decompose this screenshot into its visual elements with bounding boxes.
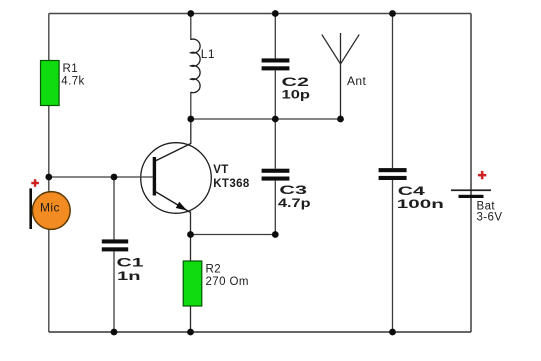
wire base (49, 176, 153, 178)
capacitor C3 (274, 119, 276, 169)
svg-text:VT: VT (213, 164, 229, 176)
node base left (45, 174, 52, 181)
svg-text:L1: L1 (201, 47, 215, 61)
svg-text:3-6V: 3-6V (477, 212, 503, 224)
capacitor C2 (274, 14, 276, 59)
battery Bat (451, 189, 491, 191)
wire emitter to C3 (191, 234, 276, 236)
svg-text:4.7p: 4.7p (278, 196, 311, 210)
svg-text:C4: C4 (398, 184, 426, 198)
svg-text:Mic: Mic (40, 200, 60, 214)
svg-text:R1: R1 (63, 63, 79, 75)
capacitor C4 (392, 14, 394, 169)
plus battery (478, 174, 486, 177)
svg-text:100n: 100n (397, 197, 444, 211)
node top C2 (272, 10, 279, 17)
wire L1 branch (190, 14, 192, 41)
svg-text:C1: C1 (117, 255, 145, 269)
antenna Ant (340, 33, 342, 119)
node bottom C1 (111, 329, 118, 336)
svg-text:R2: R2 (206, 263, 222, 275)
wire collector stub (190, 119, 192, 144)
wire right rail (470, 14, 472, 333)
node bottom R2 (187, 329, 194, 336)
node mid L1 (187, 116, 194, 123)
svg-text:4.7k: 4.7k (61, 75, 84, 87)
wire collector mid rail (191, 118, 341, 120)
resistor R1 (41, 61, 60, 106)
wire emitter stub (190, 212, 192, 262)
svg-text:1n: 1n (117, 269, 141, 283)
node C3 bottom (272, 231, 279, 238)
capacitor C1 (113, 177, 115, 239)
node bottom C4 (389, 329, 396, 336)
wire left rail (48, 14, 50, 333)
resistor R2 (183, 261, 202, 306)
plus mic (31, 182, 39, 184)
inductor L1 (191, 39, 200, 93)
node base C1 (111, 174, 118, 181)
wire R2 bottom stub (190, 306, 192, 332)
svg-text:Bat: Bat (477, 200, 496, 212)
svg-text:270 Om: 270 Om (206, 276, 249, 288)
node mid C2/C3 (272, 116, 279, 123)
wire bottom rail (49, 331, 471, 333)
wire top rail (49, 13, 471, 15)
node mid antenna (337, 116, 344, 123)
svg-text:Ant: Ant (347, 74, 366, 88)
node top L1 (187, 10, 194, 17)
svg-text:10p: 10p (282, 87, 311, 101)
microphone Mic (29, 188, 32, 229)
node top C4 (389, 10, 396, 17)
node emitter (187, 231, 194, 238)
svg-text:KT368: KT368 (213, 178, 250, 190)
transistor VT KT368 (141, 143, 212, 214)
